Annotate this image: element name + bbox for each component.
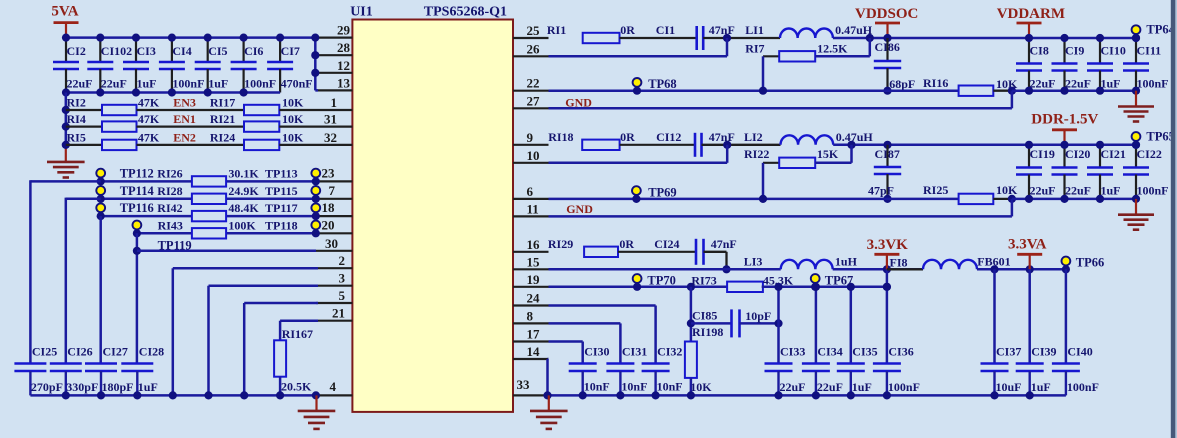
wire pin13 elbow: [315, 89, 318, 92]
svg-text:33: 33: [517, 377, 531, 392]
node CI87 top: [883, 141, 891, 149]
wire RI2 lead: [66, 109, 102, 111]
test point TP68: [633, 77, 677, 95]
node CI11 bottom: [1132, 87, 1140, 95]
capacitor CI20: [1052, 145, 1092, 199]
svg-text:10nF: 10nF: [621, 380, 647, 394]
svg-text:100nF: 100nF: [244, 77, 276, 91]
node CI2 top: [62, 34, 70, 42]
wire pin15 row: [549, 268, 781, 271]
svg-text:22uF: 22uF: [101, 77, 127, 91]
svg-text:CI36: CI36: [888, 345, 913, 359]
wire ground bus left: [30, 394, 316, 397]
svg-text:TPS65268-Q1: TPS65268-Q1: [424, 5, 507, 20]
pin 14 stub: [513, 344, 549, 359]
svg-text:1uF: 1uF: [1101, 184, 1121, 198]
test point TP118: [265, 218, 320, 237]
svg-text:LI3: LI3: [744, 255, 763, 269]
resistor RI5 47K: [67, 130, 160, 150]
pin 19 stub: [513, 272, 549, 287]
node bus right: [1026, 391, 1034, 399]
power VDDARM: [997, 6, 1065, 38]
pin 16 stub: [513, 237, 549, 252]
node CI86 bottom: [883, 87, 891, 95]
pin 21 stub: [316, 306, 352, 321]
node LI2 out: [847, 141, 855, 149]
resistor row value 48.4K: [192, 201, 260, 221]
wire RI1 to CI1: [620, 37, 697, 39]
svg-text:VDDSOC: VDDSOC: [855, 6, 918, 22]
svg-text:LI1: LI1: [745, 23, 764, 37]
wire EN3 mid: [137, 109, 245, 111]
node CI20 bottom: [1060, 195, 1068, 203]
svg-text:47K: 47K: [138, 130, 160, 144]
svg-text:22uF: 22uF: [1065, 184, 1091, 198]
node bus right: [652, 391, 660, 399]
wire LI1 to VDDSOC: [833, 37, 1136, 40]
svg-text:10nF: 10nF: [657, 380, 683, 394]
ground G5 bank2: [1118, 199, 1154, 230]
resistor RI16 10K: [923, 76, 1018, 96]
svg-text:CI31: CI31: [622, 345, 647, 359]
svg-text:RI73: RI73: [691, 274, 716, 288]
svg-text:RI17: RI17: [210, 96, 235, 110]
wire RI21 to pin: [279, 125, 316, 127]
wire FB1 row: [549, 89, 959, 92]
wire pin8 elbow: [549, 323, 621, 363]
svg-text:TP112: TP112: [120, 166, 154, 180]
test point TP70: [633, 274, 676, 291]
node CI19 top: [1025, 141, 1033, 149]
wire row y216.1: [101, 215, 316, 218]
test point TP114: [96, 184, 154, 203]
test point TP67: [811, 274, 853, 291]
svg-text:5VA: 5VA: [51, 4, 78, 20]
node LI1 out: [866, 34, 874, 42]
wire CI1 to LI1: [703, 37, 780, 39]
node CI21 bottom: [1096, 195, 1104, 203]
capacitor CI36: [873, 287, 920, 396]
node CI10 top: [1096, 34, 1104, 42]
ground G1 5VA bank: [47, 145, 85, 178]
inductor LI1 0.47uH: [745, 23, 873, 38]
svg-text:12.5K: 12.5K: [817, 42, 848, 56]
svg-text:EN1: EN1: [173, 112, 196, 126]
node bus right: [990, 391, 998, 399]
capacitor CI8: [1016, 38, 1056, 91]
pin 12 stub: [316, 58, 352, 73]
svg-text:10nF: 10nF: [584, 380, 610, 394]
capacitor CI26: [50, 345, 99, 396]
svg-text:47K: 47K: [138, 96, 160, 110]
wire bank1 gnd bus: [1012, 89, 1136, 92]
svg-text:VDDARM: VDDARM: [997, 6, 1065, 22]
wire RI16 out: [993, 90, 1012, 92]
power DDR-1.5V: [1031, 111, 1098, 145]
wire RI24 to pin: [279, 144, 316, 146]
wire RI29 to CI24: [618, 251, 696, 253]
svg-text:RI5: RI5: [67, 130, 86, 144]
svg-text:1: 1: [331, 95, 338, 110]
svg-text:CI102: CI102: [101, 44, 132, 58]
svg-text:CI34: CI34: [817, 345, 842, 359]
svg-text:RI21: RI21: [210, 112, 235, 126]
capacitor CI4: [159, 38, 205, 93]
svg-text:6: 6: [527, 184, 534, 199]
wire input pins tie vertical: [311, 34, 319, 91]
pin 20 stub: [316, 217, 352, 233]
svg-text:48.4K: 48.4K: [228, 201, 259, 215]
node CI3 top: [132, 34, 140, 42]
wire pin19 row: [549, 286, 727, 289]
svg-text:GND: GND: [565, 95, 592, 109]
label TP119: [158, 238, 192, 252]
pin 25 stub: [513, 23, 549, 38]
resistor RI4 47K: [67, 112, 160, 132]
label UI1 designator: [350, 5, 373, 20]
pin 22 stub: [513, 76, 549, 91]
svg-text:CI22: CI22: [1137, 147, 1162, 161]
node CI6 top: [240, 34, 248, 42]
test point TP112: [96, 166, 153, 185]
svg-text:CI86: CI86: [875, 40, 900, 54]
svg-text:68pF: 68pF: [889, 77, 915, 91]
wire RI22 drop to FB2: [762, 163, 765, 199]
resistor row value 30.1K: [192, 166, 260, 186]
pin 24 stub: [513, 291, 549, 306]
pin 3 stub: [316, 271, 352, 286]
resistor RI21 10K: [210, 112, 304, 132]
svg-text:CI2: CI2: [67, 44, 86, 58]
label FI8: [890, 255, 908, 269]
svg-text:RI29: RI29: [548, 237, 573, 251]
node CI102 top: [96, 34, 104, 42]
node CI85 left: [687, 319, 695, 327]
svg-text:10: 10: [527, 148, 540, 163]
power 3.3VA: [1008, 237, 1047, 270]
wire pin14 elbow: [548, 359, 549, 395]
test point TP117: [265, 201, 320, 220]
svg-text:CI12: CI12: [656, 130, 681, 144]
wire RI17 to pin: [279, 109, 316, 111]
pin 28 stub: [316, 40, 352, 55]
wire FB3 drop: [690, 287, 693, 342]
svg-text:CI25: CI25: [32, 345, 57, 359]
node 5VA cap bottom: [62, 88, 70, 96]
node 3.3VA: [1026, 265, 1034, 273]
svg-text:100nF: 100nF: [1137, 184, 1169, 198]
svg-text:CI4: CI4: [172, 44, 191, 58]
pin 5 stub: [316, 288, 352, 303]
node 5VA cap bottom: [96, 88, 104, 96]
svg-text:1uF: 1uF: [138, 380, 158, 394]
svg-text:4: 4: [330, 379, 337, 394]
resistor RI167 20.5K: [274, 327, 313, 393]
node CI7 top: [276, 34, 284, 42]
svg-text:RI25: RI25: [923, 183, 948, 197]
svg-text:22uF: 22uF: [1030, 77, 1056, 91]
node bus right: [847, 391, 855, 399]
svg-text:15K: 15K: [817, 147, 839, 161]
node 5VA cap bottom: [132, 88, 140, 96]
resistor RI24 10K: [210, 130, 304, 150]
pin 31 stub: [316, 112, 352, 127]
wire row y198.8: [101, 198, 316, 201]
capacitor CI27: [85, 345, 134, 396]
capacitor CI11: [1123, 38, 1169, 91]
node CI21 top: [1096, 141, 1104, 149]
pin 15 stub: [513, 254, 549, 269]
svg-text:15: 15: [527, 254, 541, 269]
wire RI73 out row: [762, 286, 887, 289]
node RI16 gnd join: [1008, 87, 1016, 95]
ground G4 bank1: [1118, 91, 1154, 122]
svg-text:CI28: CI28: [139, 345, 164, 359]
wire RI25 out: [993, 198, 1012, 200]
wire pin3 drop: [209, 286, 319, 396]
wire FI8 out: [977, 268, 1066, 271]
svg-text:CI87: CI87: [875, 147, 900, 161]
capacitor CI12 47nF: [656, 130, 735, 157]
svg-text:20.5K: 20.5K: [281, 380, 312, 394]
svg-text:19: 19: [527, 272, 541, 287]
svg-text:CI33: CI33: [780, 345, 805, 359]
node CI9 bottom: [1060, 87, 1068, 95]
node bus right: [616, 391, 624, 399]
wire bank2 gnd bus: [1012, 198, 1136, 201]
svg-text:TP114: TP114: [120, 184, 155, 198]
capacitor CI19: [1016, 145, 1056, 199]
pin 2 stub: [316, 253, 352, 268]
node CI87 bottom: [883, 195, 891, 203]
svg-text:EN3: EN3: [173, 96, 196, 110]
wire pin18 net to CI27: [99, 216, 102, 363]
wire pin21 to RI167: [280, 321, 318, 341]
capacitor CI3: [123, 38, 157, 93]
svg-text:100nF: 100nF: [172, 77, 204, 91]
wire RI7 drop to FB1: [762, 56, 765, 90]
svg-text:CI24: CI24: [654, 237, 679, 251]
svg-text:100nF: 100nF: [1067, 380, 1099, 394]
svg-text:20: 20: [322, 217, 335, 232]
wire 3.3VK drop: [886, 269, 889, 287]
svg-text:30.1K: 30.1K: [228, 166, 259, 180]
capacitor CI10: [1087, 38, 1126, 91]
wire CI12 to LI2: [702, 144, 781, 146]
svg-text:18: 18: [322, 200, 336, 215]
svg-text:RI16: RI16: [923, 76, 948, 90]
svg-text:47K: 47K: [138, 112, 160, 126]
wire RI22 rise: [850, 145, 853, 163]
label RI43: [158, 218, 183, 232]
svg-text:1uF: 1uF: [852, 380, 872, 394]
pin 32 stub: [316, 130, 352, 145]
wire 5VA cap ground bus: [66, 91, 280, 94]
pin 8 stub: [513, 308, 549, 323]
pin 4 stub: [316, 379, 352, 395]
wire EN1 mid: [137, 125, 245, 127]
wire RI16 gnd drop: [1011, 91, 1014, 109]
svg-text:22uF: 22uF: [780, 380, 806, 394]
node bus: [169, 391, 177, 399]
svg-text:27: 27: [527, 93, 541, 108]
pin 17 stub: [513, 327, 549, 342]
node CI85 right: [774, 319, 782, 327]
svg-text:CI7: CI7: [281, 44, 300, 58]
node CI11 top: [1132, 34, 1140, 42]
svg-text:10K: 10K: [690, 380, 712, 394]
svg-text:TP66: TP66: [1076, 255, 1104, 269]
node CI33 top: [774, 283, 782, 291]
wire to FI8: [887, 268, 923, 270]
node SW2: [723, 141, 731, 149]
resistor RI73 45.3K: [691, 274, 794, 293]
wire RI198 to bus: [690, 378, 693, 396]
svg-text:CI1: CI1: [656, 23, 675, 37]
resistor RI198 10K: [685, 325, 723, 394]
wire FB2 row: [549, 198, 959, 201]
svg-text:470nF: 470nF: [281, 77, 313, 91]
node bus: [276, 391, 284, 399]
wire pin26 net: [549, 55, 728, 58]
svg-text:1uF: 1uF: [1101, 77, 1121, 91]
svg-text:CI8: CI8: [1030, 44, 1049, 58]
svg-text:26: 26: [527, 41, 541, 56]
test point TP69: [632, 185, 677, 203]
svg-text:CI32: CI32: [657, 345, 682, 359]
capacitor CI5: [195, 38, 229, 93]
node bus: [62, 391, 70, 399]
wire SW1 drop: [726, 38, 729, 56]
svg-text:12: 12: [337, 58, 350, 73]
power 5VA: [51, 4, 78, 38]
svg-text:30: 30: [325, 236, 338, 251]
capacitor CI7: [267, 38, 313, 93]
svg-text:UI1: UI1: [350, 5, 373, 20]
svg-text:100nF: 100nF: [1137, 77, 1169, 91]
node bus right: [883, 391, 891, 399]
svg-text:100nF: 100nF: [888, 380, 920, 394]
wire pin20 net to CI28: [136, 233, 139, 363]
capacitor CI102: [87, 38, 132, 93]
svg-text:330pF: 330pF: [66, 380, 98, 394]
wire pin5 drop: [244, 303, 318, 395]
svg-text:24: 24: [527, 291, 541, 306]
resistor RI2 47K: [67, 96, 160, 116]
label RI28: [157, 184, 182, 198]
svg-text:RI28: RI28: [157, 184, 182, 198]
node CI35 top: [847, 283, 855, 291]
test point TP65: [1132, 130, 1175, 149]
svg-text:RI42: RI42: [157, 201, 182, 215]
capacitor CI31: [606, 345, 647, 396]
pin 13 stub: [316, 75, 352, 90]
test point TP64: [1132, 23, 1176, 43]
svg-text:47pF: 47pF: [868, 184, 894, 198]
wire row y181.4: [101, 180, 316, 183]
svg-text:9: 9: [527, 130, 534, 145]
pin 1 stub: [316, 95, 352, 110]
svg-text:TP118: TP118: [265, 218, 298, 232]
sheet border right edge: [1171, 0, 1177, 438]
pin 26 stub: [513, 41, 549, 56]
node bus: [240, 391, 248, 399]
pin 6 stub: [513, 184, 549, 199]
svg-text:RI22: RI22: [744, 147, 769, 161]
svg-text:22uF: 22uF: [817, 380, 843, 394]
capacitor CI2: [53, 38, 93, 93]
resistor RI22 15K: [744, 147, 852, 168]
svg-text:22uF: 22uF: [1065, 77, 1091, 91]
capacitor CI6: [231, 38, 277, 93]
wire RI25 gnd drop: [1011, 199, 1014, 217]
svg-text:28: 28: [337, 40, 351, 55]
capacitor CI25: [14, 345, 63, 396]
power 3.3VK: [867, 237, 909, 269]
svg-text:47nF: 47nF: [709, 23, 735, 37]
svg-text:CI39: CI39: [1031, 345, 1056, 359]
svg-text:TP67: TP67: [825, 274, 853, 288]
svg-text:10K: 10K: [282, 112, 304, 126]
capacitor CI86 68pF: [874, 38, 915, 91]
svg-text:16: 16: [527, 237, 541, 252]
node CI8 top: [1025, 34, 1033, 42]
svg-text:EN2: EN2: [173, 130, 196, 144]
resistor RI1 0R: [547, 23, 635, 43]
node bus: [133, 391, 141, 399]
capacitor CI21: [1087, 145, 1126, 199]
node SW3: [722, 265, 730, 273]
node SW1: [723, 34, 731, 42]
svg-text:10K: 10K: [282, 130, 304, 144]
node 5VA cap bottom: [240, 88, 248, 96]
ground G2 under pin4: [298, 395, 336, 429]
svg-text:LI2: LI2: [744, 130, 763, 144]
svg-text:CI40: CI40: [1067, 345, 1092, 359]
power VDDSOC: [855, 6, 918, 38]
svg-text:25: 25: [527, 23, 541, 38]
svg-text:3.3VK: 3.3VK: [867, 237, 909, 253]
svg-text:TP68: TP68: [648, 77, 676, 91]
node CI34 top: [812, 283, 820, 291]
svg-text:GND: GND: [566, 202, 593, 216]
pin 27 stub: [513, 93, 549, 108]
capacitor CI32: [642, 345, 683, 396]
svg-text:CI11: CI11: [1137, 44, 1162, 58]
svg-text:3: 3: [339, 271, 346, 286]
net label EN3: [173, 96, 196, 110]
net label GND pin27: [565, 95, 592, 109]
node CI22 top: [1132, 141, 1140, 149]
svg-text:0R: 0R: [620, 130, 635, 144]
inductor LI3 1uH: [744, 255, 858, 270]
wire LI3 out: [833, 268, 923, 271]
svg-text:CI35: CI35: [852, 345, 877, 359]
svg-text:RI198: RI198: [692, 325, 723, 339]
pin 29 stub: [316, 23, 352, 38]
wire GND row 27: [549, 107, 1012, 110]
node RI5 left: [62, 141, 70, 149]
svg-text:10uF: 10uF: [996, 380, 1022, 394]
inductor FI8 FB601: [923, 255, 1011, 270]
resistor RI25 10K: [923, 183, 1018, 204]
svg-text:TP116: TP116: [120, 201, 154, 215]
svg-text:CI26: CI26: [67, 345, 92, 359]
wire RI18 to CI12: [620, 144, 695, 146]
svg-text:CI10: CI10: [1101, 44, 1126, 58]
svg-text:RI167: RI167: [282, 327, 313, 341]
resistor row value 100K: [192, 218, 257, 238]
